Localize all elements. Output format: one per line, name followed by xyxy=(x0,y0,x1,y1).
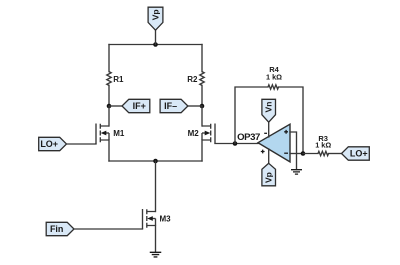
wire: + input to ground xyxy=(290,132,297,170)
svg-text:LO+: LO+ xyxy=(350,149,368,159)
flag LO+ (left) xyxy=(39,137,67,150)
flag Fin xyxy=(46,222,74,235)
flag Vp (op-amp supply) xyxy=(262,163,276,186)
node Vp junction xyxy=(153,42,158,47)
wire: R4 right lead down to output node xyxy=(279,87,304,154)
wire: M3 source to ground xyxy=(155,226,157,253)
wire: top rail Vp xyxy=(109,44,202,46)
wire: to IF- flag xyxy=(188,105,202,107)
svg-text:R1: R1 xyxy=(113,75,124,84)
node feedback junction xyxy=(233,141,238,146)
wire: LO+ to M1 gate xyxy=(66,143,96,146)
wire: Vp stub xyxy=(155,30,157,45)
transistor M1 xyxy=(95,124,97,144)
svg-text:LO+: LO+ xyxy=(40,139,58,149)
ground (M3 source) xyxy=(150,252,162,257)
wire: Vn supply stub xyxy=(268,123,270,137)
resistor R1 xyxy=(107,72,111,86)
flag Vp (top supply) xyxy=(148,7,163,30)
svg-text:OP37: OP37 xyxy=(237,132,260,143)
wire: M2 gate to op-amp output xyxy=(215,143,258,145)
node tail junction xyxy=(153,159,158,164)
svg-text:Vn: Vn xyxy=(264,102,274,113)
resistor R3 xyxy=(318,151,329,155)
wire: source rail xyxy=(109,160,202,162)
svg-text:1 kΩ: 1 kΩ xyxy=(266,72,282,81)
svg-text:Vp: Vp xyxy=(264,172,274,183)
svg-text:M2: M2 xyxy=(188,129,200,138)
wire: R1 top lead xyxy=(108,45,110,72)
input mark + (non-inverting, grounded) xyxy=(284,130,288,134)
svg-text:1 kΩ: 1 kΩ xyxy=(315,140,331,149)
wire: to IF+ flag xyxy=(109,105,122,107)
supply pin mark + (Vp) xyxy=(261,150,265,154)
transistor M3 xyxy=(142,209,144,229)
wire: tail down to M3 drain xyxy=(155,161,157,212)
node output junction xyxy=(301,151,306,156)
op-amp U1 OP37 (mirrored, output at left tip) xyxy=(258,124,290,162)
wire: Fin to M3 gate xyxy=(74,228,143,230)
ground (op-amp + input) xyxy=(291,170,302,174)
svg-text:Fin: Fin xyxy=(50,224,64,234)
svg-text:M1: M1 xyxy=(113,129,125,138)
resistor R2 xyxy=(200,72,204,86)
flag LO+ (right) xyxy=(342,147,370,160)
transistor M2 xyxy=(214,124,216,144)
wire: M1 source xyxy=(108,140,110,161)
svg-text:M3: M3 xyxy=(160,215,172,224)
wire: R2 top lead xyxy=(201,45,203,72)
flag IF+ xyxy=(122,99,150,112)
input mark - (inverting) xyxy=(284,152,288,154)
wire: R4 feedback loop xyxy=(235,87,268,144)
svg-text:IF+: IF+ xyxy=(133,101,146,111)
wire: M2 drain xyxy=(201,106,203,126)
flag Vn xyxy=(262,99,276,122)
supply pin mark - (Vn) xyxy=(264,132,267,134)
node IF- junction xyxy=(200,104,205,109)
wire: R3 to LO+ flag xyxy=(329,153,343,155)
wire: - input to output node xyxy=(290,153,303,155)
wire: output node to R3 xyxy=(303,153,318,155)
svg-text:IF–: IF– xyxy=(164,101,177,111)
resistor R4 xyxy=(268,85,279,89)
svg-text:R2: R2 xyxy=(187,75,198,84)
svg-text:Vp: Vp xyxy=(151,9,161,20)
wire: M1 drain xyxy=(108,106,110,126)
wire: R1 bottom lead xyxy=(108,85,110,106)
flag IF- xyxy=(160,99,188,112)
wire: Vp supply stub xyxy=(268,149,270,163)
wire: M2 source xyxy=(201,140,203,161)
node IF+ junction xyxy=(107,104,112,109)
wire: R2 bottom lead xyxy=(201,85,203,106)
